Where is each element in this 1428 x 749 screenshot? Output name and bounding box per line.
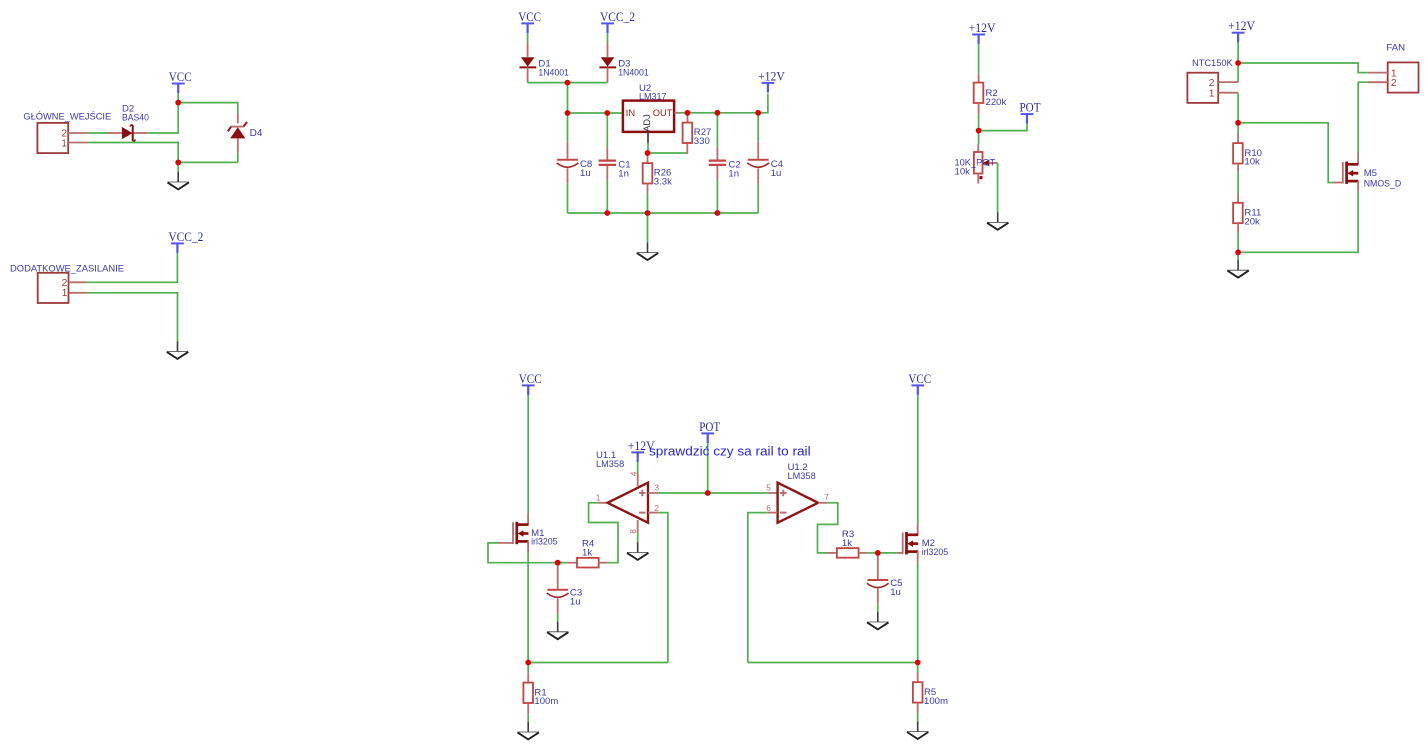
svg-text:1N4001: 1N4001 (538, 67, 569, 78)
ground (R5) (907, 722, 928, 739)
lead U1.1 pin8 (V-) (637, 520, 639, 533)
wire NTC pin1 down (1237, 93, 1239, 123)
connector FAN (1386, 42, 1418, 92)
junction ADJ node (645, 150, 651, 156)
svg-text:3: 3 (654, 483, 659, 493)
svg-text:VCC_2: VCC_2 (600, 10, 635, 24)
wire gnd stem (fan) (1237, 252, 1239, 261)
wire C8 top lead (567, 113, 569, 142)
lead R3 left (827, 552, 837, 554)
junction pot node (976, 128, 982, 134)
wire C1 top lead (606, 113, 608, 148)
wire R26 bottom (647, 193, 649, 213)
lead M5 gate (1333, 182, 1343, 184)
wire right rail (748, 662, 918, 664)
wire pin6 feedback (748, 513, 767, 663)
pin lead OUT (674, 112, 679, 114)
transistor M5 NMOS_D (1343, 162, 1401, 190)
lead R10 bottom / R11 top (1237, 164, 1239, 173)
wire C4 bottom (757, 183, 759, 213)
wire R1 to gnd (527, 714, 529, 723)
junction POT node (705, 490, 711, 496)
lead U1.1 pin2 (648, 512, 658, 514)
svg-text:7: 7 (824, 492, 829, 502)
capacitor C4 1u (747, 159, 783, 179)
svg-text:1n: 1n (728, 168, 739, 179)
wire supply to FAN pin1 (1238, 63, 1368, 73)
resistor R4 (577, 539, 599, 568)
svg-text:1: 1 (1209, 88, 1215, 99)
wire R2 to pot node (978, 114, 980, 131)
svg-text:1: 1 (596, 493, 601, 503)
lead R3 right (859, 552, 867, 554)
wire pin1 stub to corner (88, 142, 147, 144)
lead U1.2 pin6 (767, 512, 777, 514)
wire gnd node horizontal (178, 161, 238, 163)
wire D3 to vin node (568, 82, 608, 84)
wire C5 to gnd (877, 604, 879, 613)
connector NTC150K (1187, 73, 1218, 103)
svg-text:5: 5 (766, 483, 771, 493)
junction C4 top (755, 110, 761, 116)
lead C8 bottom (567, 168, 569, 183)
wire R5 to gnd (917, 714, 919, 723)
capacitor C3 1u (547, 588, 582, 608)
wire M5 source to gnd rail (1238, 191, 1358, 252)
ground (aux input) (167, 342, 188, 359)
wire D4 bottom to gnd rail (237, 153, 239, 163)
pin stub NTC pin 2 (1218, 81, 1238, 83)
resistor R26 top lead (647, 154, 649, 163)
pin stub aux pin 2 (69, 281, 87, 283)
wire pin3 to POT node (658, 492, 708, 494)
lead M1 gate (498, 542, 513, 544)
wire gnd stem (647, 213, 649, 243)
ground (pot) (987, 212, 1008, 229)
lead U1.2 pin5 (767, 492, 777, 494)
svg-text:10k: 10k (955, 166, 971, 177)
wire C1 bottom (606, 180, 608, 213)
wire vin node down (567, 83, 569, 113)
power POT label (1020, 101, 1041, 124)
svg-text:+12V: +12V (758, 69, 785, 83)
svg-text:IN: IN (626, 108, 635, 118)
wire ADJ to adj node (647, 143, 649, 153)
wire VCC to D1 (527, 33, 529, 43)
ground (regulator) (637, 243, 658, 260)
wire pin2 feedback (658, 513, 668, 663)
pin stub FAN pin 2 (1368, 81, 1388, 83)
wire POT stem down (707, 443, 709, 493)
diode D1 1N4001 (520, 43, 569, 83)
wire M1 gate to R4 node (488, 543, 558, 563)
wire VCC node to D4 top (178, 103, 238, 114)
lead U1.1 pin3 (648, 492, 658, 494)
wire R10-R11 (1237, 173, 1239, 194)
connector GLOWNE_WEJSCIE (23, 111, 111, 153)
wire VCC stem to junction (177, 93, 179, 102)
power +12V (pot divider) (969, 21, 996, 44)
power VCC_2 (regulator) (600, 10, 635, 33)
wire D1 to vin node (528, 82, 568, 84)
wire divider to M5 gate (1238, 123, 1333, 183)
wire POT node to pin5 (708, 492, 768, 494)
wire OUT rail (688, 94, 768, 113)
junction fan gnd node (1235, 249, 1241, 255)
lead M2 drain (917, 524, 919, 535)
capacitor C1 1n (599, 159, 631, 179)
svg-text:1: 1 (61, 138, 67, 149)
svg-text:220k: 220k (986, 97, 1007, 108)
capacitor C5 1u (867, 578, 903, 598)
svg-text:1n: 1n (618, 168, 629, 179)
lead pot top (977, 144, 979, 152)
svg-text:irl3205: irl3205 (531, 537, 558, 548)
wire C4 top lead (757, 113, 759, 142)
svg-text:VCC_2: VCC_2 (168, 230, 203, 244)
power VCC (input section) (169, 70, 192, 93)
lead M2 source (917, 552, 919, 563)
svg-text:LM358: LM358 (596, 459, 624, 470)
lead M1 drain (527, 514, 529, 525)
svg-text:1k: 1k (842, 538, 852, 549)
lead C5 bottom (877, 589, 879, 604)
power +12V (regulator out) (758, 69, 785, 92)
wire +12V to pin4 (637, 462, 639, 473)
pin stub FAN pin 1 (1368, 72, 1388, 74)
lead C2 bottom (716, 166, 718, 180)
svg-text:1u: 1u (771, 168, 782, 179)
wire source node to R1 (527, 663, 529, 673)
ground (R1) (518, 722, 539, 739)
svg-text:NTC150K: NTC150K (1192, 58, 1233, 69)
power +12V (fan section) (1228, 19, 1255, 42)
wire R4 left stub (558, 562, 568, 564)
wire VCC to M2 drain (917, 395, 919, 524)
svg-text:sprawdzić czy sa rail to rail: sprawdzić czy sa rail to rail (649, 443, 811, 458)
svg-text:D4: D4 (250, 128, 263, 139)
svg-text:20k: 20k (1244, 216, 1260, 227)
svg-text:irl3205: irl3205 (922, 547, 949, 558)
resistor R27 (683, 123, 712, 148)
svg-text:1N4001: 1N4001 (618, 67, 649, 78)
svg-text:FAN: FAN (1386, 42, 1405, 53)
pin lead R27 bottom (686, 143, 688, 154)
lead M5 source (1357, 181, 1359, 191)
pin stub NTC pin 1 (1218, 92, 1238, 94)
resistor R1 (523, 683, 558, 708)
svg-text:LM317: LM317 (639, 92, 667, 103)
capacitor C3 top lead (557, 565, 559, 589)
op-amp U1.2 LM358 (766, 462, 829, 523)
zener diode D4 (228, 113, 263, 152)
wire C3 to gnd (557, 614, 559, 623)
svg-text:LM358: LM358 (788, 471, 816, 482)
svg-text:POT: POT (1020, 101, 1041, 115)
resistor R2 (974, 83, 1007, 108)
wire VCC node down to pin2 corner (147, 103, 178, 133)
junction C2 bottom (715, 210, 721, 216)
wire pin1 to gnd node (147, 143, 178, 163)
wire gate node to M2 gate (878, 552, 897, 554)
diode D3 1N4001 (599, 43, 648, 83)
wire left rail (528, 662, 668, 664)
wire VCC_2 down (87, 253, 178, 282)
lead R1 bottom (527, 703, 529, 714)
svg-text:VCC: VCC (908, 372, 931, 386)
resistor R26 (643, 163, 672, 188)
junction diode-or node (565, 80, 571, 86)
junction OUT/R27 (685, 110, 691, 116)
lead M1 source (527, 541, 529, 552)
junction left source node (525, 660, 531, 666)
transistor M1 irl3205 (513, 522, 558, 548)
wire pin2 stub to diode (88, 132, 107, 134)
power VCC (regulator) (518, 10, 541, 33)
svg-text:1u: 1u (890, 587, 901, 598)
lead U1.2 pin7 (818, 502, 827, 504)
wire divider node down (1237, 123, 1239, 134)
capacitor C8 1u (557, 159, 593, 179)
ground (fan section) (1227, 260, 1248, 277)
diode D2 BAS40 (108, 103, 149, 141)
svg-text:330: 330 (694, 136, 710, 147)
junction gnd stem (regulator) (645, 210, 651, 216)
power VCC (left source) (519, 372, 542, 395)
junction right source node (915, 660, 921, 666)
svg-text:6: 6 (766, 503, 771, 513)
connector DODATKOWE_ZASILANIE (10, 264, 124, 304)
junction C1 bottom (604, 210, 610, 216)
wire C2 top lead (716, 113, 718, 148)
svg-text:2: 2 (1209, 78, 1215, 89)
wire OUT stub (679, 112, 688, 114)
wire POT to pot node (979, 124, 1027, 131)
wire FAN pin2 to M5 drain (1358, 82, 1368, 152)
transistor M2 irl3205 (903, 532, 949, 558)
potentiometer 10K_POT (955, 152, 998, 179)
wire gnd node to ground (177, 162, 179, 172)
wire C8 bottom (567, 183, 569, 213)
pin stub connector pin 2 (68, 132, 88, 134)
wire pin7 to R3 (818, 503, 838, 553)
svg-text:+12V: +12V (969, 21, 996, 35)
svg-text:1u: 1u (570, 597, 581, 608)
svg-text:BAS40: BAS40 (122, 112, 149, 123)
pin stub aux pin 1 (69, 292, 87, 294)
lead R2 top (978, 74, 980, 83)
lead R11 bottom (1237, 223, 1239, 232)
lead R5 bottom (917, 703, 919, 714)
power VCC_2 (aux input) (168, 230, 203, 253)
svg-text:ADJ: ADJ (642, 114, 652, 132)
wire wiper to ground (997, 163, 999, 213)
svg-text:100m: 100m (534, 696, 558, 707)
power +12V (op-amp supply) (628, 439, 655, 462)
ground (C3) (547, 622, 568, 639)
resistor R11 (1233, 203, 1261, 228)
ground (input section) (168, 172, 189, 189)
junction C1 top (604, 110, 610, 116)
junction C2 top (715, 110, 721, 116)
resistor R3 (837, 529, 859, 558)
regulator U2 LM317 body (623, 83, 674, 132)
power VCC (right source) (908, 372, 931, 395)
lead M5 drain (1357, 153, 1359, 165)
wire M2 source down (917, 562, 919, 662)
svg-text:1: 1 (62, 288, 68, 299)
junction fan supply node (1235, 60, 1241, 66)
wire R11 to gnd node (1237, 233, 1239, 253)
capacitor C5 top lead (877, 555, 879, 579)
wire pin8 to gnd (637, 533, 639, 544)
svg-text:10k: 10k (1244, 157, 1260, 168)
wire C2 bottom (716, 180, 718, 213)
resistor R10 (1233, 143, 1262, 168)
junction R3/C5 node (875, 550, 881, 556)
wire IN rail (568, 112, 623, 114)
wire VCC_2 to D3 (607, 33, 609, 43)
svg-text:POT: POT (699, 420, 720, 434)
lead C4 bottom (757, 168, 759, 183)
svg-text:OUT: OUT (653, 108, 673, 118)
wire VCC to M1 drain (527, 395, 529, 513)
lead U1.1 pin1 (598, 502, 608, 504)
wire adj node to R27 bottom (648, 152, 688, 154)
svg-text:1k: 1k (582, 548, 592, 559)
lead M2 gate (897, 552, 903, 554)
svg-text:NMOS_D: NMOS_D (1364, 178, 1402, 189)
op-amp U1.1 LM358 (596, 450, 660, 534)
svg-text:+12V: +12V (1228, 19, 1255, 33)
svg-text:100m: 100m (924, 696, 948, 707)
pin U2 ADJ (647, 132, 649, 143)
wire +12V to R2 (978, 44, 980, 73)
junction VCC node (175, 100, 181, 106)
junction C8 top (565, 110, 571, 116)
junction divider node (1235, 120, 1241, 126)
wire M1 source down (527, 552, 529, 662)
wire R3 to gate node (867, 552, 878, 554)
wire supply node down to NTC pin2 (1237, 63, 1239, 82)
wire aux pin1 to ground (87, 293, 178, 342)
svg-text:VCC: VCC (518, 10, 541, 24)
wire pot node down (978, 131, 980, 144)
svg-text:2: 2 (1391, 78, 1397, 89)
wire +12V down (1237, 42, 1239, 63)
svg-text:2: 2 (654, 503, 659, 513)
wire regulator ground rail (568, 212, 759, 214)
wire source node to R5 (917, 663, 919, 673)
junction gnd node (175, 160, 181, 166)
lead R4 right (599, 562, 608, 564)
ground (op-amp) (627, 543, 648, 560)
svg-text:3.3k: 3.3k (654, 177, 672, 188)
lead C3 bottom (557, 598, 559, 613)
wire R4 to opamp out (589, 503, 618, 563)
resistor R5 (913, 682, 948, 707)
pin stub connector pin 1 (68, 142, 88, 144)
lead pot bottom (open) (977, 174, 979, 184)
svg-text:VCC: VCC (519, 372, 542, 386)
svg-text:1u: 1u (580, 168, 591, 179)
svg-text:VCC: VCC (169, 70, 192, 84)
svg-text:GŁÓWNE_WEJŚCIE: GŁÓWNE_WEJŚCIE (23, 111, 111, 123)
svg-text:8: 8 (628, 529, 638, 534)
svg-text:DODATKOWE_ZASILANIE: DODATKOWE_ZASILANIE (10, 264, 124, 275)
power POT (setpoint) (699, 420, 720, 443)
junction R4/C3 node (555, 560, 561, 566)
pin lead R27 top (687, 113, 689, 123)
lead C1 bottom (606, 166, 608, 180)
lead R2 bottom (978, 103, 980, 114)
capacitor C2 1n (709, 159, 741, 179)
ground (C5) (867, 612, 888, 629)
lead R26 bottom (647, 184, 649, 194)
